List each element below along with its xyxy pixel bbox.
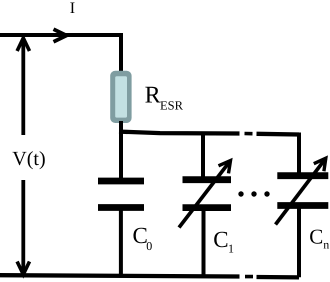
capacitor C0 top plate <box>98 178 144 185</box>
variable arrow Cn head <box>314 158 326 171</box>
wire bottom rail right segment <box>257 275 300 280</box>
svg-text:n: n <box>323 238 329 252</box>
voltage arrow line upper segment <box>21 39 25 135</box>
capacitor C1 top plate <box>183 176 232 183</box>
svg-text:C: C <box>309 224 323 248</box>
wire C1 top from rail <box>201 132 205 177</box>
wire mid rail solid left <box>119 132 240 134</box>
wire C0 bottom to rail <box>119 210 123 276</box>
wire Cn top from rail corner <box>297 133 301 174</box>
svg-text:ESR: ESR <box>160 98 184 112</box>
resistor R_ESR body <box>110 71 131 123</box>
svg-text:V(t): V(t) <box>12 148 45 170</box>
capacitor Cn top plate <box>277 172 328 179</box>
capacitor Cn bottom plate <box>277 202 328 209</box>
wire below resistor to C0 <box>119 121 123 179</box>
wire mid rail right segment <box>257 132 300 137</box>
wire top rail <box>0 33 121 37</box>
wire bottom rail solid left <box>0 275 240 276</box>
svg-text:R: R <box>145 83 161 109</box>
svg-text:C: C <box>213 227 228 252</box>
voltage arrow line lower segment <box>21 180 25 272</box>
voltage arrow up head <box>17 38 29 51</box>
capacitor C1 bottom plate <box>183 204 232 211</box>
dots ellipsis <box>238 191 243 196</box>
wire mid rail dash <box>245 132 253 136</box>
voltage arrow down head <box>17 262 29 275</box>
wire bottom rail dash <box>245 275 253 279</box>
capacitor C0 bottom plate <box>98 204 144 211</box>
wire Cn bottom to rail corner <box>297 208 301 277</box>
wire corner down to resistor <box>119 33 123 72</box>
variable arrow Cn shaft <box>276 158 326 224</box>
current arrow head I <box>54 29 67 42</box>
svg-text:1: 1 <box>228 241 234 255</box>
variable arrow C1 shaft <box>179 161 231 228</box>
svg-text:I: I <box>70 0 75 17</box>
svg-text:0: 0 <box>146 239 152 253</box>
variable arrow C1 head <box>219 161 231 174</box>
wire C1 bottom to rail <box>202 211 206 277</box>
